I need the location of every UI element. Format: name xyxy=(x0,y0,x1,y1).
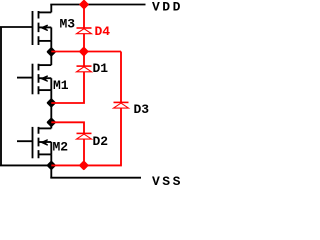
M2 channel segments xyxy=(38,127,40,158)
node B junction dot (black) xyxy=(48,99,55,106)
M1 bulk lead xyxy=(39,77,52,79)
diode D3 xyxy=(114,102,129,108)
svg-text:D1: D1 xyxy=(93,61,109,76)
D4 triangle xyxy=(77,29,92,34)
wire: D2 down to node D xyxy=(83,139,85,165)
M3 gate bar xyxy=(32,11,34,45)
transistor M1 xyxy=(17,64,51,95)
M1 bulk arrow xyxy=(42,76,47,81)
svg-text:VSS: VSS xyxy=(152,174,183,186)
M2 gate lead xyxy=(17,140,33,142)
svg-text:M3: M3 xyxy=(60,17,76,32)
M3 bulk arrow xyxy=(42,25,47,30)
wire: D3 branch top vertical xyxy=(120,52,122,103)
node D junction dot (black) xyxy=(48,162,55,169)
transistor M3 xyxy=(33,11,52,45)
svg-text:D2: D2 xyxy=(93,134,109,149)
D3 cathode bar xyxy=(114,101,129,103)
red wire node D horizontal to D3 bottom xyxy=(51,108,121,165)
svg-text:M1: M1 xyxy=(53,78,69,93)
red junction dot on VDD rail xyxy=(80,1,87,8)
wire: red drop from VDD rail to D4 xyxy=(83,5,85,29)
D4 cathode bar xyxy=(77,27,92,29)
M2 source stub xyxy=(39,153,52,155)
diode D4 xyxy=(77,28,92,34)
svg-text:VDD: VDD xyxy=(152,0,183,15)
wire: D4 to node A xyxy=(83,34,85,52)
D2 triangle xyxy=(77,134,92,139)
M3 drain wire up to VDD rail xyxy=(50,5,52,13)
wire: M2 source down through node D to VSS rail xyxy=(50,154,52,177)
wire: D1 down and left to node B xyxy=(51,72,84,103)
M1 source stub xyxy=(39,89,52,91)
wire: bus top horizontal to M3 gate xyxy=(0,26,33,28)
wire: M1 source down to node B xyxy=(50,90,52,122)
M1 gate lead xyxy=(17,77,33,79)
M1 channel segments xyxy=(38,64,40,95)
D1 cathode bar xyxy=(77,65,92,67)
node A junction dot (red) xyxy=(80,48,87,55)
M2 gate bar xyxy=(32,127,34,158)
wire: node A down to D1 xyxy=(83,52,85,67)
svg-text:M2: M2 xyxy=(53,140,69,155)
VDD rail xyxy=(50,4,145,6)
M3 drain stub xyxy=(39,11,52,13)
M3 bulk-to-source corner xyxy=(50,27,52,41)
red wire node A horizontal to D3 branch xyxy=(51,51,121,53)
node C junction dot (black) xyxy=(48,119,55,126)
diode D1 xyxy=(77,66,92,72)
M1 drain stub xyxy=(39,64,52,66)
node A junction dot (black) xyxy=(48,48,55,55)
M3 source stub xyxy=(39,40,52,42)
node D junction dot (red) xyxy=(80,162,87,169)
M2 bulk lead xyxy=(39,141,52,143)
wire: left gate bus vertical xyxy=(0,27,2,165)
D3 triangle xyxy=(114,103,129,108)
svg-text:D3: D3 xyxy=(134,102,150,117)
M2 bulk-to-source corner xyxy=(50,142,52,154)
M1 bulk-to-source corner xyxy=(50,78,52,90)
D2 cathode bar xyxy=(77,132,92,134)
VSS rail xyxy=(50,177,141,179)
D1 triangle xyxy=(77,67,92,72)
wire: M3 source to M1 drain xyxy=(50,41,52,65)
M2 bulk arrow xyxy=(42,140,47,145)
M3 bulk lead xyxy=(39,26,52,28)
M1 gate bar xyxy=(32,64,34,95)
wire: node C down to M2 drain xyxy=(50,122,52,128)
wire: bus bottom horizontal to node D xyxy=(0,164,51,166)
M2 drain stub xyxy=(39,127,52,129)
diode D2 xyxy=(77,133,92,139)
svg-text:D4: D4 xyxy=(95,24,111,39)
M3 channel segments xyxy=(38,11,40,45)
wire: node C right and down to D2 xyxy=(51,122,84,133)
transistor M2 xyxy=(17,127,51,158)
